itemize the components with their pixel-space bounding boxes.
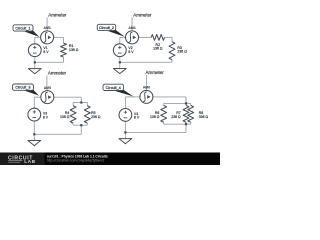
svg-text:Ammeter: Ammeter <box>133 12 152 17</box>
svg-text:136 Ω: 136 Ω <box>69 48 79 52</box>
junctions <box>80 101 82 103</box>
wire ammeter right to parallel top <box>153 96 186 98</box>
resistor R1 136 ohm <box>61 43 67 57</box>
CircuitLab logo <box>8 155 36 165</box>
resistor R5 236 ohm <box>84 106 90 124</box>
svg-text:Ammeter: Ammeter <box>48 71 67 76</box>
svg-text:236 Ω: 236 Ω <box>171 115 181 119</box>
ground <box>119 139 132 144</box>
wire V2 bottom to ground junction <box>119 57 121 69</box>
bottom wire to R3 <box>120 61 172 63</box>
svg-text:http://circuitlab.com/c/4yp84q: http://circuitlab.com/c/4yp84qr5jt8wv3 <box>47 158 104 162</box>
svg-text:LAB: LAB <box>24 159 36 165</box>
junction V1/ground <box>34 61 36 63</box>
wire ammeter left to V1 top <box>35 36 41 38</box>
svg-text:136 Ω: 136 Ω <box>153 47 163 51</box>
watermark bar <box>0 153 220 166</box>
resistor R6 136 ohm <box>161 105 167 122</box>
voltage source V4 <box>119 109 140 122</box>
svg-text:Circuit_2: Circuit_2 <box>99 26 114 30</box>
wire ammeter right to R1 top <box>54 36 64 38</box>
ground <box>28 141 41 146</box>
svg-text:Circuit_4: Circuit_4 <box>106 86 122 90</box>
bottom rail <box>73 124 87 126</box>
svg-text:AM6: AM6 <box>143 86 150 90</box>
svg-text:336 Ω: 336 Ω <box>199 115 209 119</box>
note flag Circuit_1 <box>13 25 40 37</box>
wire ammeter right to R2 <box>139 36 152 38</box>
ammeter AM6 <box>140 86 153 104</box>
note flag Circuit_4 <box>103 84 134 96</box>
node name Ammeter <box>132 12 152 31</box>
note flag Circuit_2 <box>97 24 125 37</box>
junction V2/ground <box>119 61 121 63</box>
svg-text:Circuit_3: Circuit_3 <box>15 86 30 90</box>
resistor R3 236 ohm <box>169 42 175 60</box>
bottom wire to R1 <box>35 61 64 63</box>
node name Ammeter <box>47 71 67 91</box>
bottom rail <box>164 123 191 125</box>
wire V1 bottom to ground junction <box>34 57 36 69</box>
svg-text:Ammeter: Ammeter <box>48 12 67 17</box>
svg-text:236 Ω: 236 Ω <box>177 50 187 54</box>
junctions <box>185 102 187 104</box>
bottom wire to parallel bottom <box>34 133 81 135</box>
node name Ammeter <box>146 70 165 90</box>
voltage source V3 <box>28 108 49 121</box>
svg-text:236 Ω: 236 Ω <box>91 115 101 119</box>
ground <box>28 69 41 74</box>
svg-text:136 Ω: 136 Ω <box>60 115 70 119</box>
resistor R4 136 ohm <box>70 106 76 124</box>
svg-text:Ammeter: Ammeter <box>146 70 165 75</box>
resistor R8 336 ohm <box>188 105 194 122</box>
voltage source V2 <box>113 44 134 57</box>
wire R2 to R3 top <box>165 36 173 38</box>
svg-text:8 V: 8 V <box>43 50 49 54</box>
resistor R7 236 ohm <box>183 105 189 122</box>
wire ammeter left to V2 top <box>120 36 126 38</box>
wire ammeter right to parallel top <box>54 96 82 98</box>
svg-text:AM3: AM3 <box>44 26 51 30</box>
ground <box>113 69 126 74</box>
svg-text:8 V: 8 V <box>43 115 49 119</box>
top rail <box>164 102 191 104</box>
node name Ammeter <box>47 12 67 31</box>
wire ammeter left to V3 top <box>34 96 41 98</box>
svg-text:AM4: AM4 <box>128 26 135 30</box>
wire V4 bottom to ground junction <box>124 121 126 138</box>
bottom wire to parallel bottom <box>125 131 186 133</box>
resistor R2 136 ohm <box>151 35 164 41</box>
wire ammeter left to V4 top <box>125 96 139 98</box>
svg-text:Circuit_1: Circuit_1 <box>15 26 30 30</box>
note flag Circuit_3 <box>13 84 40 96</box>
voltage source V1 <box>28 44 49 57</box>
svg-text:8 V: 8 V <box>134 116 140 120</box>
wire V3 bottom to ground junction <box>33 121 35 141</box>
svg-text:AM5: AM5 <box>44 86 51 90</box>
ammeter AM3 <box>41 26 54 44</box>
ammeter AM4 <box>126 26 139 44</box>
ammeter AM5 <box>41 86 54 104</box>
svg-text:136 Ω: 136 Ω <box>150 115 160 119</box>
top rail <box>73 102 87 104</box>
svg-text:8 V: 8 V <box>128 50 134 54</box>
